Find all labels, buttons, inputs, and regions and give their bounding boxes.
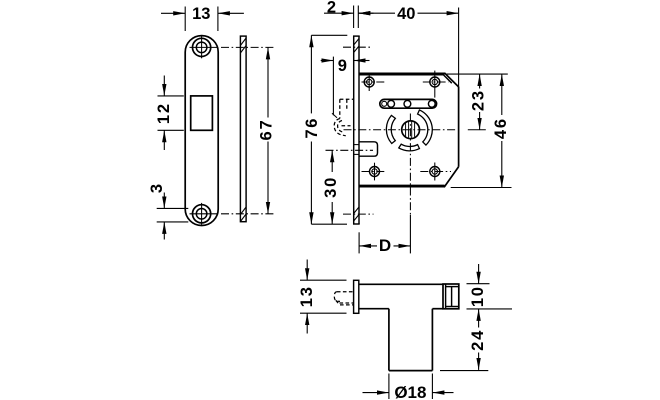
- dimension 13 extension line right: [217, 7, 219, 32]
- screw position center line across strip bottom: [343, 213, 374, 215]
- dimension 12 bottom arrow: [163, 130, 165, 150]
- cylinder housing right edge: [431, 309, 433, 371]
- screw hole top (outer circle): [193, 38, 211, 56]
- screw position center line across strip top: [343, 46, 372, 48]
- cylinder follower circle: [402, 121, 420, 139]
- screw hole bottom (inner circle): [196, 209, 207, 220]
- svg-text:23: 23: [470, 89, 488, 111]
- screw hole bottom vertical center mark: [201, 203, 203, 225]
- svg-text:10: 10: [469, 285, 487, 307]
- strip top cap: [353, 35, 360, 37]
- dimension 23 line lower segment with arrow: [479, 112, 481, 130]
- end cap inner vertical line 1: [445, 284, 447, 309]
- faceplate front view (stadium plate): [185, 36, 218, 226]
- strip hatch bottom: [354, 207, 359, 214]
- lock case top edge (thick band): [359, 73, 445, 76]
- bottom view end cap outer rectangle: [443, 284, 459, 309]
- svg-text:12: 12: [155, 102, 173, 124]
- strip hatch top: [354, 39, 359, 46]
- dimension 2 arrow left: [324, 12, 354, 14]
- side strip of faceplate (edge view): [240, 36, 246, 222]
- dimension 3 bottom arrow: [163, 222, 165, 240]
- slot pin 2: [388, 100, 395, 107]
- latch tail rounded rectangle inside case: [359, 142, 378, 156]
- latch center line: [326, 149, 374, 151]
- follower vertical center line: [409, 114, 411, 216]
- dimension 13 extension line left: [184, 7, 186, 32]
- dimension D line left segment with arrow: [359, 245, 377, 247]
- dimension 23 and 46 top extension line: [447, 73, 508, 75]
- follower horizontal center line: [344, 129, 458, 131]
- strip latch opening tick bottom: [354, 153, 359, 155]
- case screw bottom-right center line: [420, 171, 451, 173]
- dimension D line right segment with arrow: [394, 245, 411, 247]
- dimension 13 bottom view bottom arrow: [306, 313, 308, 333]
- dimension 46 bottom extension line: [451, 187, 512, 189]
- dimension diameter 18 extension left: [388, 374, 390, 400]
- dimension diameter 18 extension right: [431, 374, 433, 400]
- case screw top-left vertical mark: [368, 73, 370, 91]
- dimension 13 bottom view label: [298, 285, 316, 307]
- dimension 24 line upper segment with arrow: [478, 309, 480, 328]
- dimension 67 label: [257, 119, 275, 141]
- dimension 13 bottom view extension bottom: [300, 312, 347, 314]
- case screw top-left center line: [362, 81, 385, 83]
- cylinder housing bottom edge: [389, 370, 433, 372]
- dashed latch nose horizontal dash: [342, 125, 351, 127]
- dashed latch nose inner curve: [338, 121, 343, 133]
- dimension 10 extension top: [467, 283, 490, 285]
- dimension 67 line upper segment with arrow: [267, 47, 269, 117]
- dimension 3 label: [148, 182, 166, 193]
- dimension 2 extension line right: [357, 6, 359, 29]
- follower cam arc bottom: [399, 144, 420, 151]
- dimension 76 extension line bottom: [311, 223, 347, 225]
- screw hole bottom horizontal center mark: [190, 213, 219, 215]
- case screw top-left (inner): [367, 79, 372, 84]
- dimension 24 label: [469, 329, 487, 351]
- cylinder housing left edge: [388, 309, 390, 371]
- dashed bolt thrown position left line: [339, 99, 341, 118]
- dimension 9 arrow left: [321, 60, 334, 62]
- lock case top chamfer inner line: [444, 75, 452, 83]
- svg-text:9: 9: [338, 57, 347, 75]
- dimension 46 label: [492, 117, 510, 139]
- dimension 40 line right segment with arrow: [418, 12, 459, 14]
- dimension 13 bottom view extension top: [300, 279, 347, 281]
- strip bottom cap: [353, 223, 360, 225]
- dimension 9 arrow right: [354, 60, 370, 62]
- center line from bottom screw to side strip: [221, 213, 275, 215]
- svg-text:46: 46: [492, 117, 510, 139]
- case screw top-right vertical mark: [434, 71, 436, 98]
- dimension 3 extension line top: [157, 207, 189, 209]
- svg-text:D: D: [379, 236, 391, 255]
- follower cam arc left: [386, 115, 395, 143]
- lock case right edge: [458, 87, 460, 167]
- dimension 67 line lower segment with arrow: [267, 142, 269, 214]
- slot pin 1: [382, 101, 387, 106]
- case screw top-left (outer): [364, 77, 374, 87]
- screw hole top (inner circle): [196, 42, 207, 53]
- dimension diameter 18 right arrow: [432, 392, 453, 394]
- dimension 12 label: [155, 102, 173, 124]
- dimension 2 extension line left: [353, 6, 355, 29]
- bottom view dashed latch slant: [336, 300, 340, 304]
- dashed bolt mid line: [346, 99, 348, 109]
- follower locking arc right (large): [418, 110, 433, 145]
- slot pin 3: [404, 100, 411, 107]
- bottom view case bar top edge: [359, 283, 443, 285]
- bottom view case bar bottom edge left: [359, 308, 389, 310]
- dimension 13 right arrow: [218, 12, 244, 14]
- svg-text:67: 67: [257, 119, 275, 141]
- lock case bottom right chamfer: [444, 167, 459, 188]
- dimension 13 left arrow: [161, 12, 185, 14]
- case screw bottom-left vertical mark: [374, 163, 376, 181]
- dimension D left extension line: [358, 232, 360, 253]
- center line from top screw to side strip: [221, 46, 275, 48]
- dimension 76 line upper segment with arrow: [310, 35, 312, 113]
- dimension 3 top arrow: [163, 193, 165, 209]
- dimension 23 line upper segment with arrow: [479, 74, 481, 88]
- case screw bottom-right vertical mark: [434, 163, 436, 181]
- dimension 24 line lower segment with arrow: [478, 353, 480, 370]
- bottom view dashed latch top: [337, 291, 354, 293]
- dimension 46 line lower segment with arrow: [501, 141, 503, 188]
- svg-text:2: 2: [327, 0, 336, 16]
- strip latch opening tick top: [354, 144, 359, 146]
- dimension 12 top arrow: [163, 76, 165, 96]
- dimension 12 extension line bottom: [158, 129, 184, 131]
- bottom view case bar bottom edge right: [432, 308, 443, 310]
- case screw bottom-right (inner): [432, 169, 437, 174]
- case screw bottom-right (outer): [430, 167, 440, 177]
- dimension 40 line left segment with arrow: [358, 12, 395, 14]
- dimension 3 extension line bottom: [157, 221, 189, 223]
- lock faceplate sectioned strip right line: [358, 36, 360, 224]
- dimension 23 bottom extension line: [468, 129, 486, 131]
- case screw bottom-left (outer): [370, 167, 380, 177]
- dimension 76 line lower segment with arrow: [310, 142, 312, 225]
- bolt guide slot: [380, 99, 437, 108]
- follower knurl hatch lines: [405, 123, 407, 137]
- case screw top-right (inner): [432, 79, 437, 84]
- dimension 10 top arrow: [478, 264, 480, 284]
- screw hole bottom (outer circle): [193, 205, 211, 223]
- dimension 30 label: [322, 176, 340, 198]
- end cap inner horizontal line top: [446, 286, 459, 288]
- screw hole top vertical center mark: [201, 37, 203, 59]
- svg-text:30: 30: [322, 176, 340, 198]
- lock faceplate sectioned strip (front view) left line: [353, 36, 355, 224]
- bolt throw extension line with end tick: [332, 57, 334, 116]
- dimension 2 arrow right: [358, 12, 373, 14]
- case screw bottom-left center line: [362, 171, 386, 173]
- dimension 30 line upper segment with arrow: [331, 150, 333, 172]
- bottom view dashed latch lower lines: [340, 302, 354, 304]
- slot pin 4: [428, 100, 435, 107]
- side strip hatch top: [240, 38, 246, 46]
- svg-text:40: 40: [397, 5, 415, 23]
- svg-text:13: 13: [298, 285, 316, 307]
- svg-text:76: 76: [303, 117, 321, 139]
- svg-text:13: 13: [192, 5, 210, 23]
- dimension 76 extension line top: [311, 34, 347, 36]
- bottom view dashed latch left arc: [334, 292, 340, 302]
- dimension 30 line lower segment with arrow: [331, 202, 333, 224]
- dimension 23 label: [470, 89, 488, 111]
- end cap inner horizontal line bottom: [446, 306, 459, 308]
- dimension 76 label: [303, 117, 321, 139]
- dashed latch nose outer curve: [334, 119, 346, 136]
- dimension 10 / 24 shared extension: [467, 308, 513, 310]
- follower vertical center line solid extension to D dimension: [409, 215, 411, 253]
- dimension diameter 18 left arrow: [363, 392, 389, 394]
- svg-text:3: 3: [148, 182, 166, 193]
- dimension 40 right extension line: [458, 8, 460, 87]
- dimension 46 line upper segment with arrow: [501, 74, 503, 115]
- screw hole top horizontal center mark: [190, 46, 219, 48]
- end cap inner vertical line 2: [451, 287, 453, 307]
- bottom view faceplate (edge): [354, 280, 359, 313]
- lock case bottom edge (thick band): [359, 185, 445, 188]
- case screw bottom-left (inner): [372, 169, 377, 174]
- dashed bolt thrown position top line: [340, 98, 354, 100]
- case screw top-right center line: [423, 81, 449, 83]
- lock case top right chamfer: [444, 73, 458, 87]
- dimension 10 label: [469, 285, 487, 307]
- dimension 24 bottom extension: [440, 370, 488, 372]
- side strip hatch bottom: [240, 207, 246, 215]
- dimension 12 extension line top: [158, 95, 184, 97]
- svg-text:24: 24: [469, 329, 487, 351]
- case screw top-right (outer): [430, 77, 440, 87]
- svg-text:Ø18: Ø18: [394, 383, 426, 400]
- latch cutout rectangle in faceplate: [191, 96, 213, 130]
- dimension 13 bottom view top arrow: [306, 260, 308, 281]
